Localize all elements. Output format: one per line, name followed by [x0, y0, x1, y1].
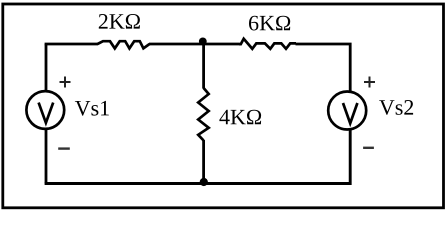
wire: R3 down to bottom rail node B	[202, 140, 205, 183]
label Vs1	[75, 101, 109, 116]
resistor R3 4KΩ (vertical)	[198, 88, 209, 141]
label Vs2	[379, 100, 413, 115]
label 6KΩ	[249, 16, 290, 31]
wire: node A down to R3	[202, 41, 205, 89]
wire: top rail left segment	[45, 43, 98, 46]
wire: bottom rail right segment, up to Vs2	[204, 130, 350, 184]
wire: Vs1 negative terminal down to bottom rail	[45, 129, 48, 183]
wire: Vs1 positive terminal up to top rail	[45, 44, 48, 91]
wire: top rail from R2 to right corner, down to Vs2	[296, 44, 351, 91]
Vs2 plus polarity mark	[364, 77, 375, 88]
resistor R2 6KΩ	[239, 39, 296, 49]
wire: bottom rail left segment	[45, 182, 204, 185]
Vs2 meter V glyph	[343, 103, 357, 123]
Vs1 minus polarity mark	[58, 147, 70, 149]
wire: top rail from node A to R2	[203, 43, 240, 46]
node B (bottom junction dot)	[200, 178, 208, 186]
Vs1 meter V glyph	[39, 103, 54, 123]
node A (top junction dot)	[199, 38, 207, 46]
wire: top rail from R1 to node A	[149, 43, 203, 46]
label 2KΩ	[99, 14, 140, 29]
voltage source Vs2 (circle)	[328, 92, 366, 130]
Vs2 minus polarity mark	[363, 147, 374, 149]
resistor R1 2KΩ	[98, 41, 150, 48]
voltage source Vs1 (circle)	[26, 91, 64, 129]
label 4KΩ	[219, 110, 261, 125]
Vs1 plus polarity mark	[60, 77, 71, 88]
